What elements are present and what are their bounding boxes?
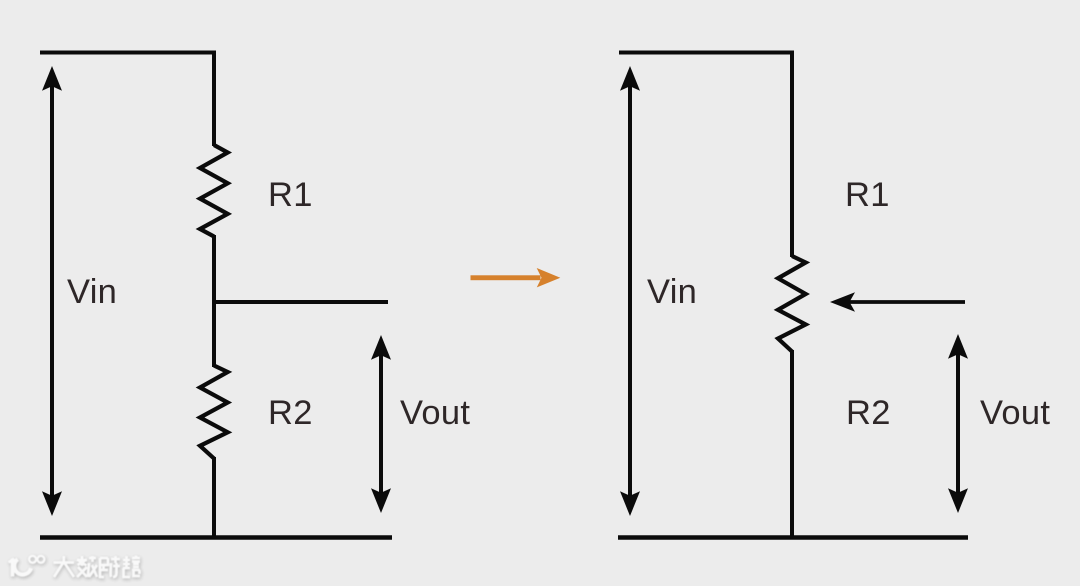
svg-text:Vout: Vout [400,394,470,432]
svg-text:Vin: Vin [647,273,697,311]
wire: left circuit top + R1 top lead [40,53,214,147]
Vin arrow (right, double-headed) [620,66,640,516]
wire: right circuit top + potentiometer top lead [619,53,792,258]
Vout arrow (left, double-headed) [371,335,391,513]
watermark shadow layer [9,557,141,579]
watermark white layer [9,556,141,578]
wiper arrow into potentiometer [830,292,965,312]
wire: R2 bottom lead [212,457,216,539]
potentiometer R1/R2 (right circuit zigzag) [778,256,806,352]
wire: tap node between R1 and R2 to Vout [214,300,388,304]
svg-text:R1: R1 [268,176,313,214]
wire: potentiometer bottom lead [790,350,794,539]
svg-text:R2: R2 [846,394,891,432]
Vout arrow (right, double-headed) [948,334,968,513]
resistor R2 (left circuit zigzag) [200,366,228,459]
transform arrow (orange) [471,268,561,287]
wire: left circuit bottom rail [40,535,392,540]
svg-text:Vout: Vout [980,394,1050,432]
svg-text:Vin: Vin [67,273,117,311]
wire: right circuit bottom rail [618,535,968,540]
wire: R1 bottom to R2 top through tap node [212,235,216,367]
svg-text:R1: R1 [845,176,890,214]
resistor R1 (left circuit zigzag) [200,145,228,237]
svg-text:R2: R2 [268,394,313,432]
Vin arrow (left, double-headed) [42,66,62,516]
